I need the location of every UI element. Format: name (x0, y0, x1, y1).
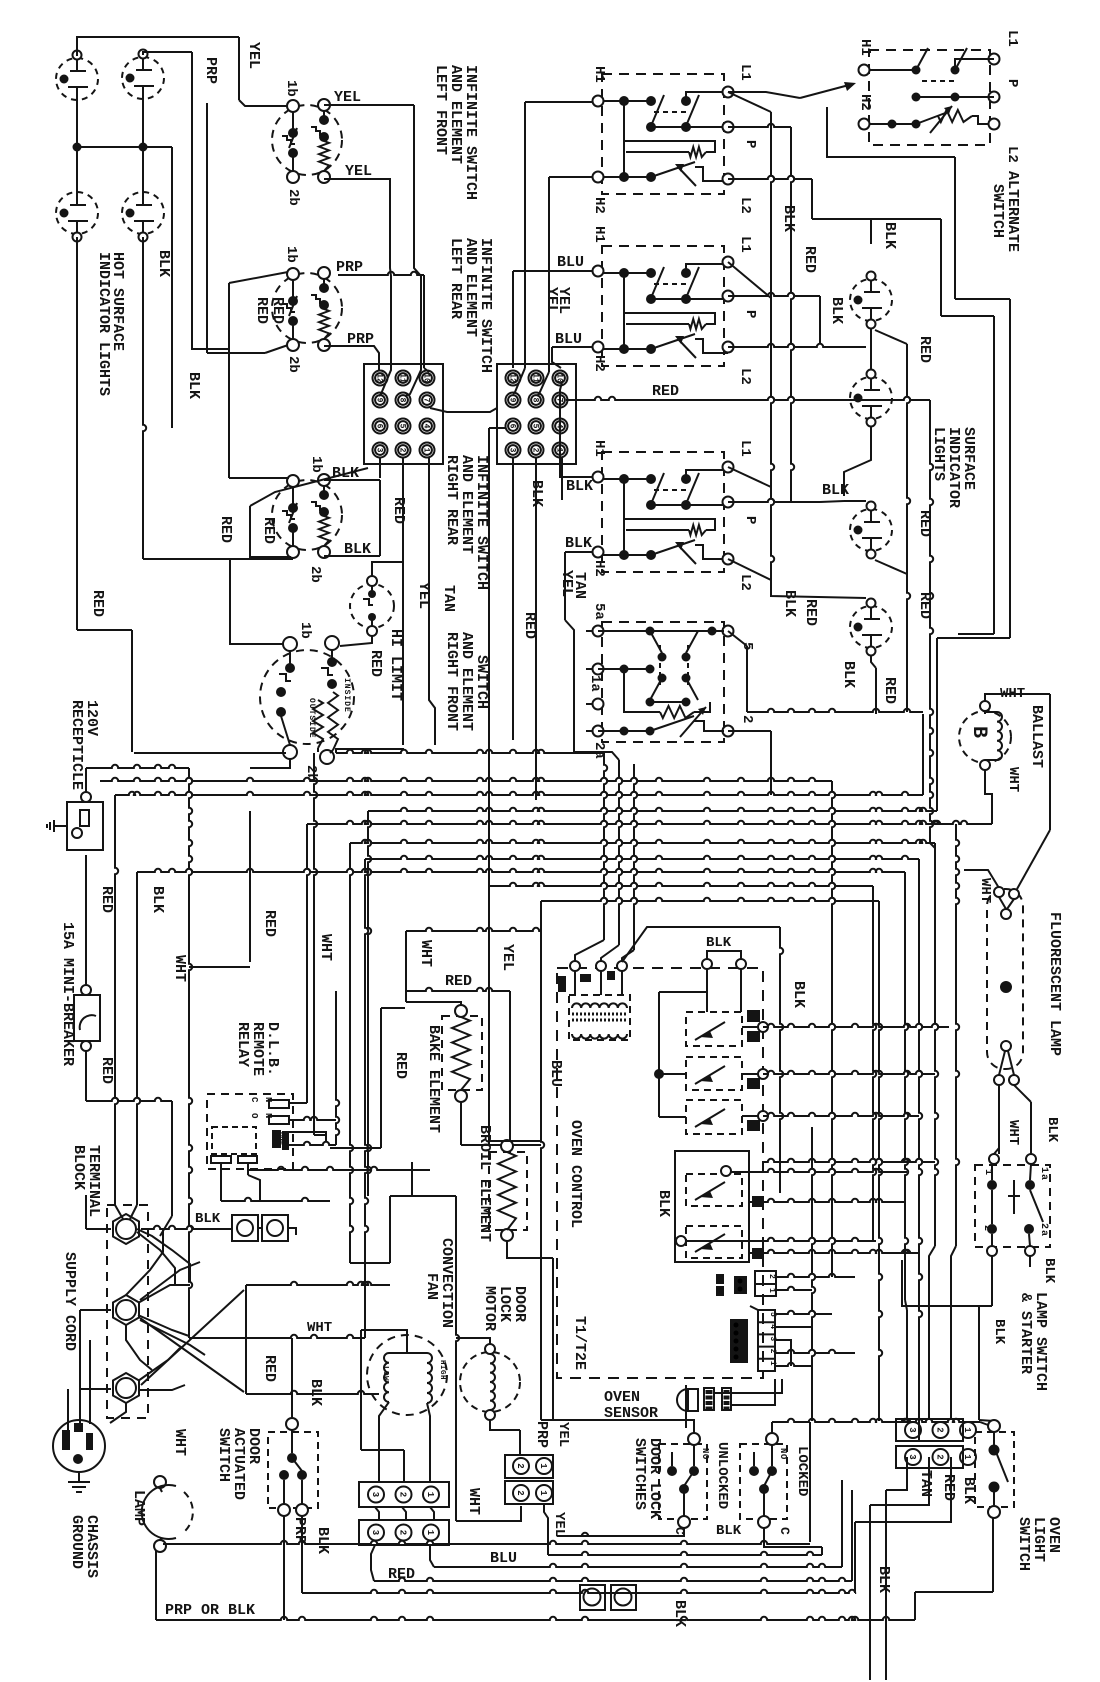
fluorescent lamp (987, 887, 1023, 1085)
wire right boundary B (812, 219, 994, 634)
svg-text:1b: 1b (283, 80, 299, 97)
wire wht bus to fluor (964, 870, 999, 888)
svg-text:BLK: BLK (185, 372, 202, 399)
wire fan conn3 out (371, 1545, 852, 1581)
bus y859 (365, 856, 922, 1440)
svg-text:COM: COM (277, 1132, 285, 1145)
infinite switch left rear (272, 267, 342, 351)
wire dlb no out (289, 991, 339, 1145)
hot surface indicator light 2 (122, 50, 164, 100)
svg-text:BALLAST: BALLAST (1028, 705, 1045, 768)
svg-text:PRP: PRP (202, 57, 219, 84)
wire red out (870, 1457, 929, 1680)
terminals box B (593, 257, 734, 353)
svg-text:2: 2 (531, 448, 540, 453)
svg-text:SWITCH: SWITCH (215, 1428, 232, 1482)
wire ls to oven light switch (902, 1306, 994, 1421)
wire unlocked bottom (557, 1528, 684, 1536)
wire bundle right of oven control (791, 1127, 815, 1421)
svg-text:RED: RED (652, 383, 679, 400)
svg-text:BLK: BLK (565, 535, 592, 552)
wire to sl4 top (771, 582, 866, 598)
svg-text:RIGHT REAR: RIGHT REAR (443, 455, 460, 545)
svg-text:BLK: BLK (716, 1523, 742, 1539)
wire relay tag runs (764, 1199, 919, 1253)
svg-text:UNLOCKED: UNLOCKED (714, 1442, 730, 1509)
svg-text:C: C (249, 1097, 259, 1103)
blk loop jumper (702, 951, 746, 969)
wire wht horiz (189, 1335, 365, 1338)
oc terminal runs right (686, 1024, 949, 1241)
wire 1b LR diag (229, 272, 288, 283)
wire H-column left (513, 102, 592, 742)
wire BLK RR top (324, 480, 380, 556)
svg-text:2b: 2b (307, 566, 323, 583)
wire P A right (728, 124, 791, 127)
svg-text:L2: L2 (737, 574, 753, 591)
svg-text:LOW: LOW (381, 1366, 389, 1381)
bus prp or blk (156, 1550, 915, 1620)
infinite switch left front (272, 99, 342, 183)
svg-text:HI LIMIT: HI LIMIT (387, 629, 404, 701)
terminals box C (593, 462, 734, 565)
surface switch box C (598, 452, 728, 572)
wire junction bus (73, 99, 173, 428)
bus y1593 (302, 1590, 855, 1593)
wire lamp3 drop RED (77, 237, 132, 752)
wire ls bottom right (1029, 1256, 1031, 1267)
svg-text:FLUORESCENT LAMP: FLUORESCENT LAMP (1046, 912, 1063, 1056)
svg-text:15A MINI-BREAKER: 15A MINI-BREAKER (59, 922, 76, 1066)
svg-text:2b: 2b (285, 189, 301, 206)
svg-text:P: P (742, 516, 758, 524)
svg-text:2: 2 (515, 1463, 525, 1468)
svg-text:BLK: BLK (875, 1566, 892, 1593)
svg-text:YEL: YEL (551, 1512, 567, 1537)
wire top YEL run (77, 37, 288, 106)
wire nut fan1 (137, 1229, 190, 1285)
surface indicator light 3 (850, 502, 892, 559)
svg-text:6: 6 (375, 424, 384, 429)
svg-text:H2: H2 (591, 197, 607, 214)
svg-text:12: 12 (375, 373, 384, 383)
svg-text:3: 3 (907, 1454, 917, 1459)
svg-text:BROIL ELEMENT: BROIL ELEMENT (476, 1125, 493, 1242)
alternate switch (859, 48, 1000, 145)
svg-text:RIGHT FRONT: RIGHT FRONT (443, 632, 460, 731)
svg-text:BLK: BLK (790, 981, 807, 1008)
svg-text:WHT: WHT (1005, 767, 1021, 792)
wire conn feeds (907, 1246, 956, 1419)
dlb remote relay (207, 1094, 293, 1169)
svg-text:RED: RED (367, 650, 384, 677)
svg-text:GROUND: GROUND (68, 1515, 85, 1569)
wire PRP LR top (338, 272, 429, 372)
wire recep top (85, 768, 87, 792)
wire sensor leads (714, 1379, 782, 1405)
svg-text:P: P (742, 140, 758, 148)
wire sl2 bottom (844, 426, 871, 496)
svg-text:H1: H1 (857, 39, 873, 56)
svg-text:LEFT FRONT: LEFT FRONT (432, 65, 449, 155)
wire P B right (728, 293, 820, 343)
svg-text:1: 1 (538, 1490, 548, 1496)
svg-text:YEL: YEL (555, 1422, 571, 1447)
wire L1A diag (728, 92, 774, 582)
bus y1536 (557, 1533, 684, 1536)
terminals box A (593, 87, 734, 185)
wire fluor right down (1014, 1085, 1036, 1164)
svg-text:1b: 1b (297, 622, 313, 639)
svg-text:RED: RED (521, 612, 538, 639)
door actuated switch (268, 1418, 318, 1516)
svg-text:2: 2 (515, 1490, 525, 1495)
svg-text:2: 2 (739, 715, 755, 723)
svg-text:RED: RED (916, 510, 933, 537)
wire hop bus y1162 (763, 1159, 935, 1162)
wire tb2 red run (430, 397, 935, 848)
wire YEL LF right (324, 105, 421, 396)
svg-text:N: N (263, 1097, 273, 1102)
svg-text:9: 9 (508, 398, 517, 403)
svg-text:WHT: WHT (1005, 1120, 1021, 1145)
svg-text:LEFT REAR: LEFT REAR (447, 238, 464, 319)
wire ballast bottom (985, 770, 992, 824)
fan connector lower (359, 1520, 449, 1545)
svg-text:2: 2 (981, 1225, 992, 1232)
svg-text:BLU: BLU (547, 1060, 564, 1087)
svg-text:FAN: FAN (423, 1273, 440, 1300)
wire locked bottom (764, 1528, 822, 1555)
svg-text:BLK: BLK (781, 590, 798, 617)
bus y1592 right (915, 1518, 993, 1620)
wire dlb rly out (776, 1274, 855, 1290)
wire red y991 (381, 988, 510, 1148)
svg-text:WHT: WHT (977, 878, 993, 903)
wire yel to broil (489, 428, 506, 886)
wire YEL LF bottom (324, 179, 391, 396)
wire tblock drops (380, 458, 435, 745)
surface switch box A (598, 74, 728, 194)
svg-text:5: 5 (531, 424, 540, 429)
oven control relays lower (675, 1151, 764, 1262)
svg-text:5: 5 (398, 424, 407, 429)
svg-text:H1: H1 (591, 440, 607, 457)
svg-text:BLK: BLK (155, 250, 172, 277)
svg-text:RED: RED (916, 592, 933, 619)
bus y824 (289, 821, 992, 1103)
svg-text:TAN: TAN (440, 585, 457, 612)
svg-text:RED: RED (390, 497, 407, 524)
svg-text:N: N (263, 1113, 273, 1118)
infinite switch right front (260, 636, 354, 764)
svg-text:O: O (249, 1113, 259, 1119)
svg-text:P: P (742, 310, 758, 318)
bus y811 (250, 808, 937, 1196)
wire nut1 left (86, 1195, 111, 1229)
hex nut 3 (113, 1373, 139, 1403)
wire fan conn1 out (430, 1545, 842, 1567)
svg-text:HIGH: HIGH (438, 1360, 446, 1380)
svg-text:BLK: BLK (1044, 1117, 1060, 1143)
wire L2 A right (728, 176, 871, 244)
svg-text:1b: 1b (308, 456, 324, 473)
right conn strip 1 (896, 1419, 976, 1441)
wire L2 C diag (728, 559, 771, 580)
bus y795 (115, 792, 923, 1219)
svg-text:PRP OR BLK: PRP OR BLK (165, 1602, 255, 1619)
svg-text:RED: RED (98, 1057, 115, 1084)
wire dlb runs right (248, 1148, 430, 1170)
wire broil top (489, 1141, 541, 1145)
svg-text:TAN: TAN (917, 1470, 934, 1497)
svg-text:3: 3 (375, 448, 384, 453)
bottom square 1 (580, 1585, 605, 1610)
bus y753 (134, 750, 604, 753)
surface indicator light 2 (850, 370, 892, 427)
svg-text:RED: RED (261, 1355, 278, 1382)
wire 5 and 2 from box D (728, 631, 771, 795)
wire unlocked top (541, 1420, 694, 1433)
ground symbol (68, 1472, 90, 1492)
svg-text:MOTOR: MOTOR (481, 1286, 498, 1331)
svg-text:7: 7 (422, 398, 431, 403)
bus y843 (350, 840, 938, 1263)
oven control relays upper (654, 969, 768, 1134)
dlm connector upper (505, 1455, 553, 1478)
svg-text:RED: RED (881, 677, 898, 704)
svg-text:RED: RED (98, 886, 115, 913)
svg-text:WHT: WHT (317, 934, 334, 961)
hot surface indicator light 4 (122, 192, 164, 242)
terminal block left (364, 364, 443, 464)
terminal block right (497, 364, 576, 464)
wire das prp (283, 1516, 285, 1620)
bus y768 (86, 765, 189, 768)
wire RED diag to 1b RR (229, 283, 368, 557)
svg-text:H1: H1 (591, 66, 607, 83)
svg-text:10: 10 (555, 373, 564, 383)
oven sensor (677, 1385, 731, 1428)
svg-text:SUPPLY CORD: SUPPLY CORD (61, 1252, 78, 1351)
surface switch box D (593, 622, 734, 742)
svg-text:H1: H1 (591, 226, 607, 243)
svg-text:2: 2 (767, 1274, 776, 1279)
svg-text:RED: RED (269, 297, 286, 324)
wire hop bus y712 (757, 709, 923, 712)
svg-text:1: 1 (962, 1454, 972, 1460)
svg-text:YEL: YEL (415, 582, 432, 609)
svg-text:BAKE ELEMENT: BAKE ELEMENT (425, 1025, 442, 1133)
convection fan motor (361, 1330, 447, 1482)
svg-text:3: 3 (370, 1530, 380, 1535)
svg-text:NO: NO (778, 1448, 788, 1460)
svg-text:BLK: BLK (314, 1527, 331, 1554)
wire red jog (246, 1282, 390, 1394)
bus y901 (541, 898, 882, 1421)
svg-text:4: 4 (422, 424, 431, 429)
svg-text:2b: 2b (285, 356, 301, 373)
wire x832 drop (832, 781, 835, 1277)
svg-text:RED: RED (388, 1566, 415, 1583)
svg-text:L1: L1 (737, 440, 753, 457)
hex nut 1 (113, 1214, 139, 1244)
svg-text:WHT: WHT (417, 940, 434, 967)
svg-text:INDICATOR LIGHTS: INDICATOR LIGHTS (95, 252, 112, 396)
right conn strip 2 (896, 1446, 976, 1468)
svg-text:1a: 1a (1038, 1167, 1049, 1181)
svg-text:& STARTER: & STARTER (1017, 1293, 1034, 1374)
wire red r2 (791, 127, 794, 502)
svg-text:T1/T2E: T1/T2E (571, 1316, 588, 1370)
wire dlm conn out (544, 1504, 822, 1555)
oven lamp (142, 1476, 193, 1552)
svg-text:RED: RED (916, 336, 933, 363)
wire bake bottom (461, 1102, 541, 1145)
svg-text:2a: 2a (1038, 1223, 1049, 1237)
bus y781 (100, 778, 832, 781)
svg-text:L2: L2 (1004, 146, 1020, 163)
hi limit (350, 576, 394, 636)
svg-text:SWITCH: SWITCH (1015, 1517, 1032, 1571)
svg-text:B: B (967, 726, 990, 738)
fan connector upper (359, 1482, 449, 1507)
bus y886 (489, 883, 876, 1241)
svg-text:RED: RED (89, 590, 106, 617)
door lock switch unlocked (659, 1433, 707, 1528)
svg-text:BLK: BLK (780, 205, 797, 232)
svg-text:RED: RED (801, 246, 818, 273)
chassis ground plug (53, 1420, 105, 1472)
svg-text:L1: L1 (1004, 30, 1020, 47)
svg-text:BLK: BLK (528, 480, 545, 507)
wire 1b RF left (230, 558, 283, 644)
svg-text:YEL: YEL (499, 944, 516, 971)
15a mini-breaker (74, 985, 100, 1051)
surface indicator light 1 (850, 272, 892, 329)
svg-text:WHT: WHT (307, 1320, 332, 1336)
wire second vertical (207, 103, 291, 353)
svg-text:1: 1 (767, 1288, 776, 1293)
wire BLK RR bottom (143, 556, 339, 559)
wire x314 wht (314, 753, 326, 1135)
dlb rly connector (716, 1271, 776, 1296)
wire blk out (855, 1457, 951, 1593)
ballast (959, 701, 1011, 770)
wire locked top (772, 1419, 988, 1542)
svg-text:1: 1 (425, 1530, 435, 1536)
wire t1t2e outs (775, 1311, 855, 1366)
wire breaker down (86, 1051, 172, 1236)
wire dlm top (456, 1338, 521, 1521)
svg-text:2: 2 (398, 448, 407, 453)
wire hi limit bottom (340, 636, 372, 646)
terminal block supply (107, 1205, 148, 1418)
svg-text:BLK: BLK (149, 886, 166, 913)
svg-text:1: 1 (425, 1492, 435, 1498)
svg-text:INSIDE: INSIDE (342, 678, 351, 713)
wire sl1-sl2 (875, 330, 910, 712)
svg-text:8: 8 (398, 398, 407, 403)
svg-text:P: P (1004, 79, 1020, 87)
feeder verticals to transformer (574, 742, 637, 961)
svg-text:3: 3 (907, 1427, 917, 1432)
svg-text:L1: L1 (737, 64, 753, 81)
door lock motor (460, 1344, 520, 1420)
svg-text:11: 11 (398, 373, 407, 383)
svg-text:RECEPTICLE: RECEPTICLE (68, 700, 85, 790)
wire broil bottom (507, 1241, 553, 1420)
wire chassis leads (68, 1340, 90, 1430)
t1t2e connector (730, 1306, 777, 1371)
svg-text:L2: L2 (737, 368, 753, 385)
svg-text:RED: RED (392, 1052, 409, 1079)
svg-text:YEL: YEL (245, 42, 262, 69)
svg-text:WHT: WHT (171, 955, 188, 982)
svg-text:RED: RED (217, 516, 234, 543)
transformer (558, 961, 630, 1040)
wire recep bottom (85, 855, 87, 985)
svg-text:PRP: PRP (336, 259, 363, 276)
wire P C left (728, 499, 791, 502)
wire nut3 fan (110, 1348, 185, 1423)
svg-text:BLK: BLK (828, 297, 845, 324)
svg-text:RED: RED (253, 297, 270, 324)
svg-text:YEL: YEL (334, 89, 361, 106)
svg-text:5a: 5a (591, 603, 607, 620)
convection fan box (390, 1162, 459, 1521)
dlm connector lower (505, 1481, 553, 1504)
svg-text:RED: RED (261, 910, 278, 937)
wire das top (189, 768, 292, 1418)
svg-text:RED: RED (445, 973, 472, 990)
surface switch box B (598, 246, 728, 366)
svg-text:BLK: BLK (1041, 1258, 1057, 1284)
lamp switch and starter (975, 1164, 1050, 1256)
svg-text:6: 6 (508, 424, 517, 429)
bus y1542 risers (842, 1480, 852, 1581)
wire lamp2 to PRP (143, 52, 229, 349)
svg-text:11: 11 (531, 373, 540, 383)
svg-text:3: 3 (370, 1492, 380, 1497)
door lock switch locked (740, 1433, 787, 1528)
broil element (489, 1140, 527, 1241)
svg-text:BLU: BLU (555, 331, 582, 348)
small square contact 2 (262, 1215, 288, 1241)
svg-text:2: 2 (398, 1492, 408, 1497)
wire x923 up (922, 714, 924, 795)
wire nut2 fan (126, 1230, 205, 1370)
svg-text:BLK: BLK (991, 1319, 1007, 1345)
wire right boundary A (827, 107, 1010, 638)
bus y872 (130, 869, 908, 1310)
svg-text:9: 9 (375, 398, 384, 403)
bake element (442, 1005, 482, 1102)
wire wht to bake (406, 928, 541, 1006)
svg-text:SWITCHES: SWITCHES (631, 1438, 648, 1510)
svg-text:1: 1 (962, 1427, 972, 1433)
svg-text:LOCKED: LOCKED (794, 1446, 810, 1496)
svg-text:1: 1 (982, 1169, 993, 1176)
hot surface indicator light 1 (56, 51, 98, 101)
svg-text:8: 8 (531, 398, 540, 403)
svg-text:BLK: BLK (881, 222, 898, 249)
svg-text:H2: H2 (591, 355, 607, 372)
svg-text:2: 2 (935, 1454, 945, 1459)
svg-text:RED: RED (802, 599, 819, 626)
wire x956 drop (956, 824, 959, 1246)
svg-text:YEL: YEL (345, 163, 372, 180)
